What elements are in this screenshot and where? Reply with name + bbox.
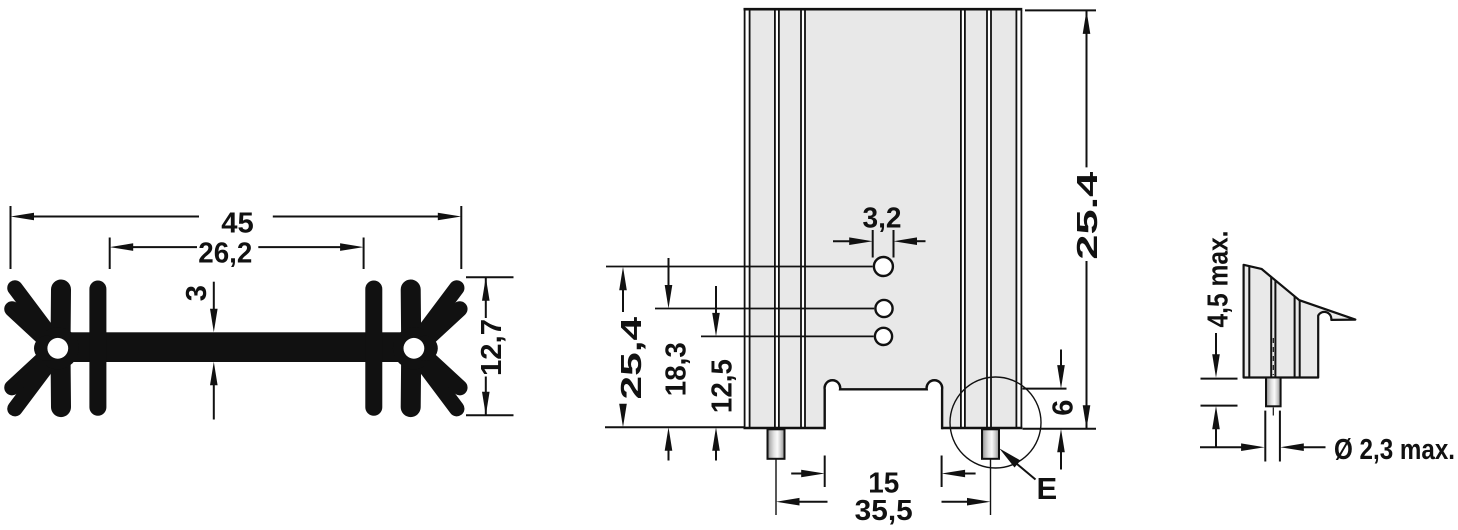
svg-text:3: 3 [181, 285, 213, 301]
svg-text:25,4: 25,4 [616, 317, 648, 400]
svg-text:E: E [1036, 471, 1057, 506]
svg-text:18,3: 18,3 [661, 342, 693, 396]
svg-text:35,5: 35,5 [855, 495, 913, 527]
svg-text:Ø 2,3 max.: Ø 2,3 max. [1334, 434, 1455, 466]
svg-text:25.4: 25.4 [1072, 172, 1104, 260]
svg-text:12,5: 12,5 [706, 359, 738, 413]
svg-text:4,5 max.: 4,5 max. [1203, 231, 1235, 328]
svg-text:6: 6 [1047, 400, 1079, 416]
svg-text:26,2: 26,2 [198, 237, 252, 269]
svg-text:12,7: 12,7 [476, 319, 508, 376]
svg-text:3,2: 3,2 [863, 203, 902, 235]
svg-text:45: 45 [221, 207, 254, 239]
